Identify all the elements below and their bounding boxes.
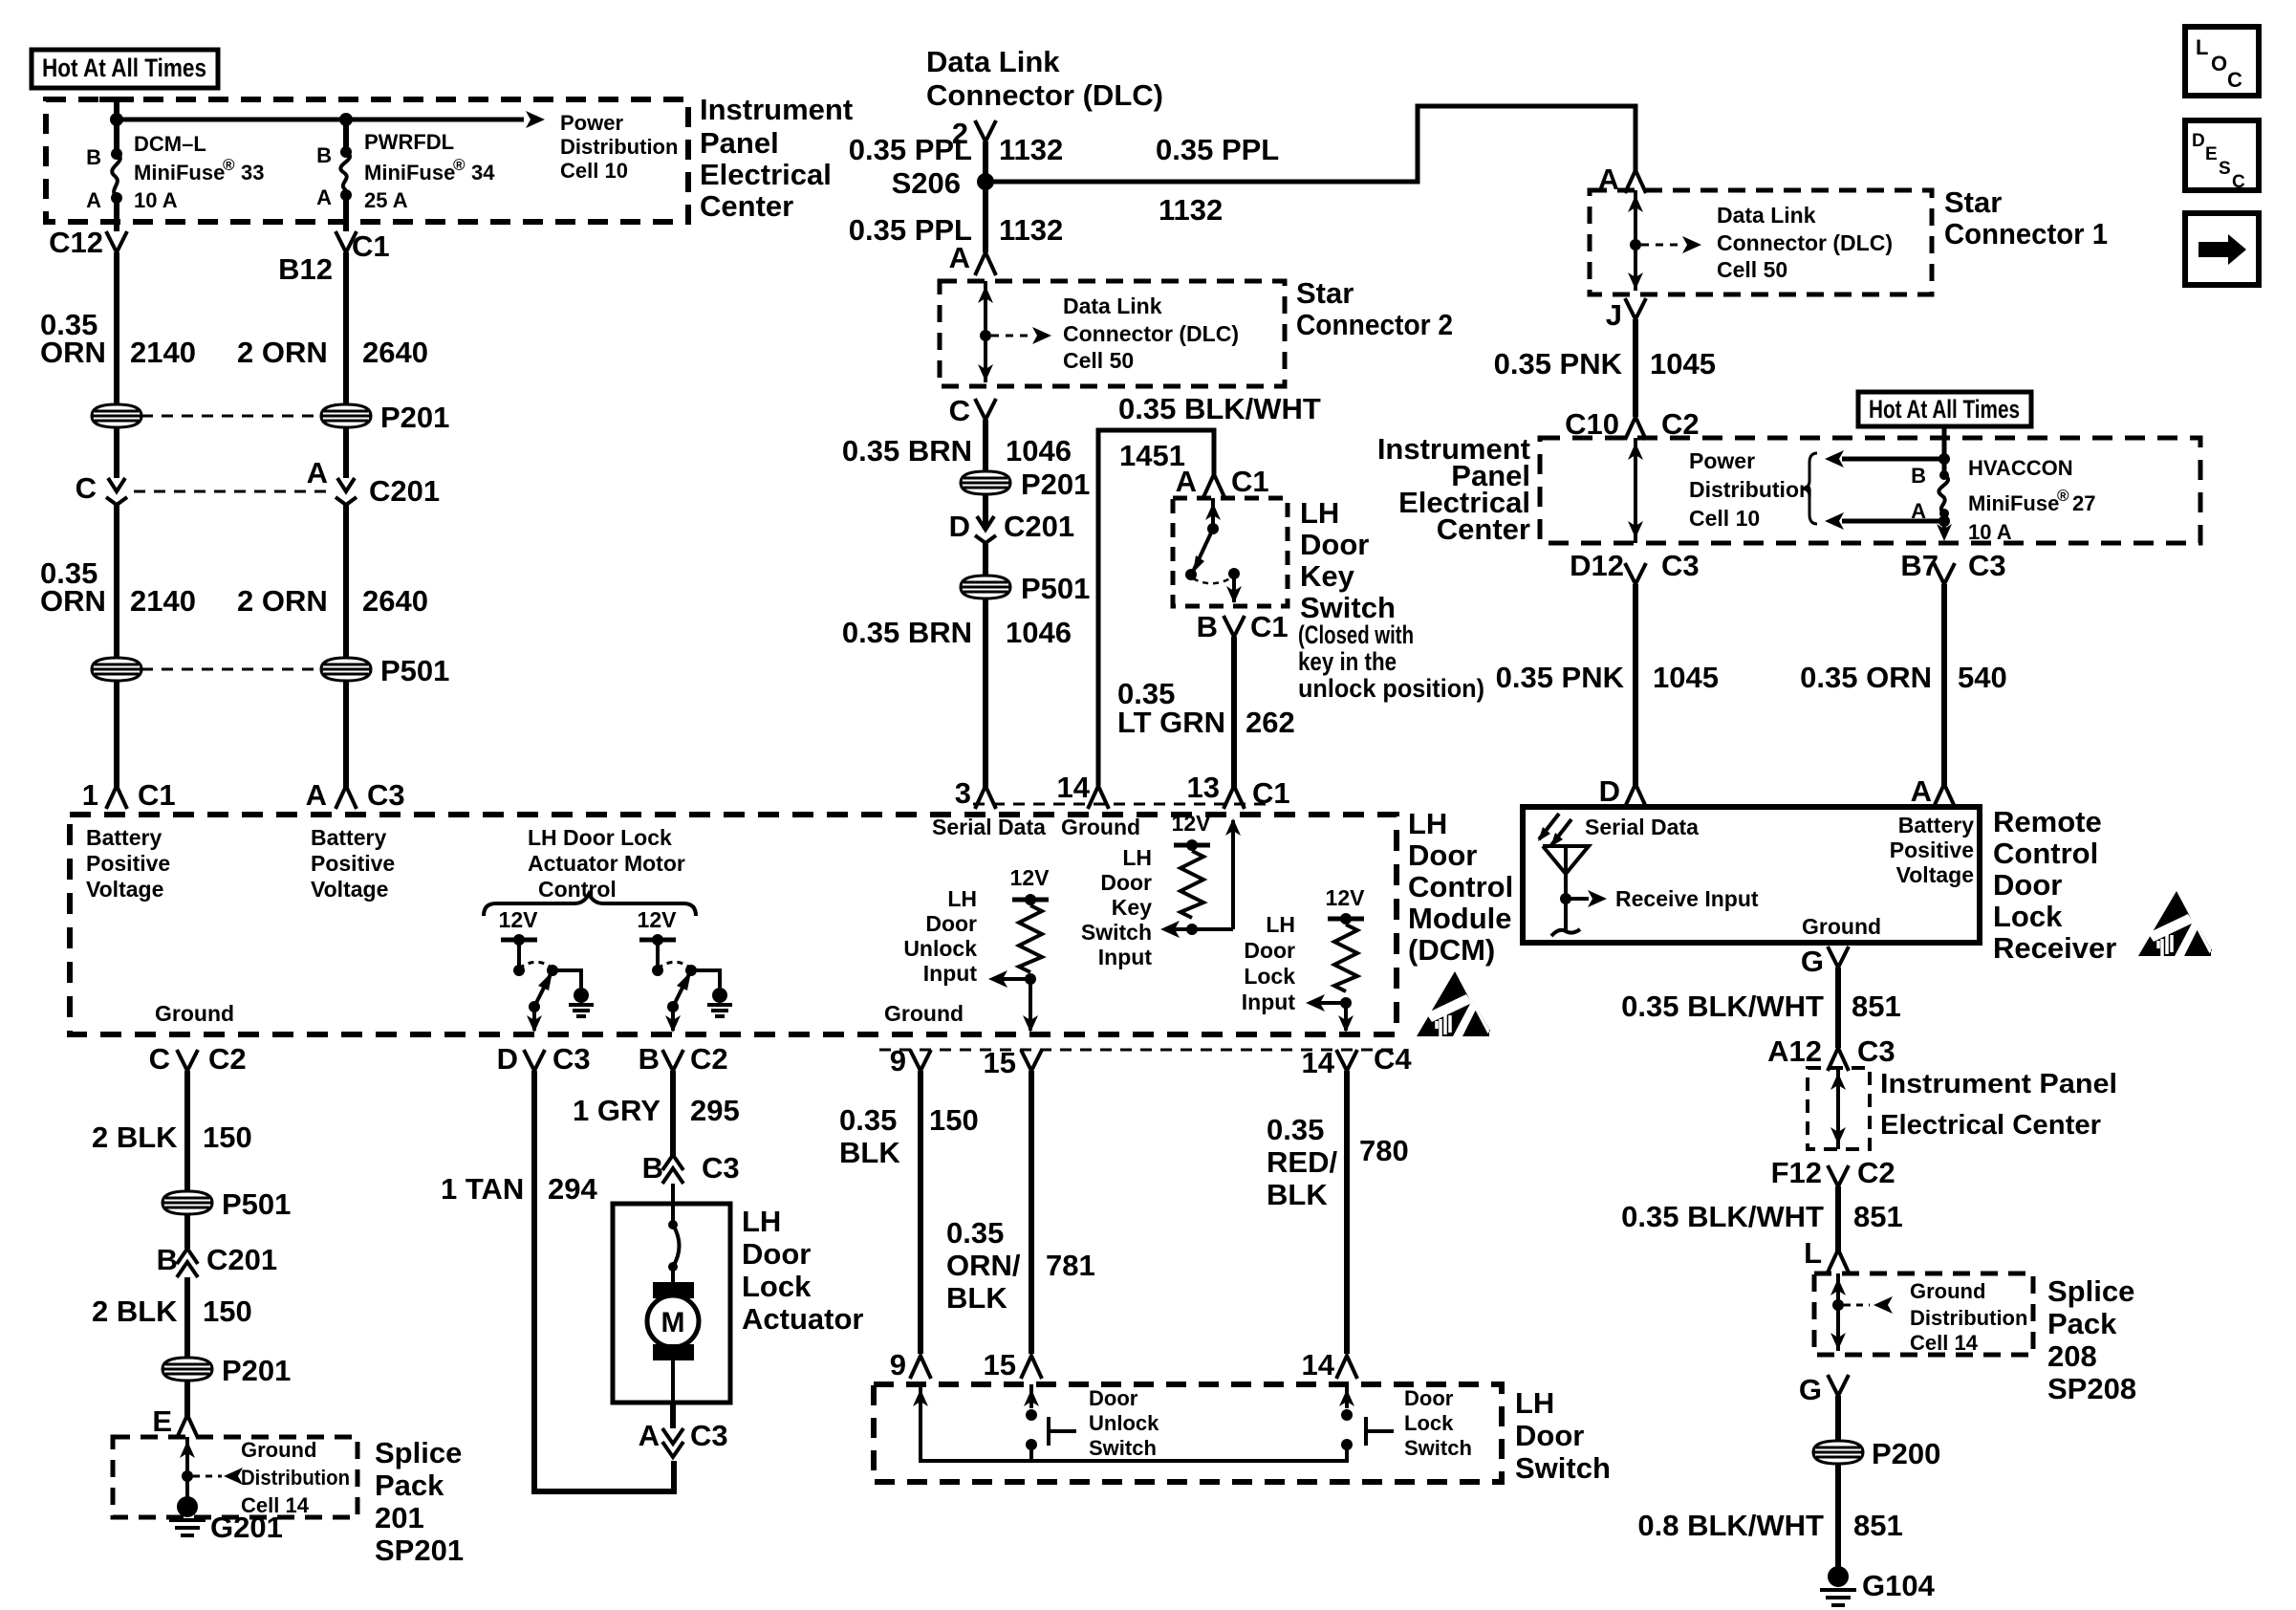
svg-text:Instrument Panel: Instrument Panel [1880, 1069, 2117, 1099]
svg-text:294: 294 [548, 1172, 597, 1206]
label: 1 TAN 294 [441, 1172, 597, 1206]
wire: into splice pack [180, 1437, 195, 1497]
svg-text:Serial Data: Serial Data [932, 815, 1046, 839]
svg-text:G104: G104 [1862, 1569, 1936, 1602]
svg-text:0.35 PPL: 0.35 PPL [849, 133, 972, 166]
label: 0.35 ORN/BLK 781 [946, 1216, 1095, 1315]
svg-text:Door: Door [1244, 938, 1295, 963]
ESD symbol at DCM [1417, 971, 1490, 1036]
connector D / C201 inline [949, 494, 1075, 543]
svg-text:Ground: Ground [241, 1438, 316, 1462]
svg-text:Electrical Center: Electrical Center [1880, 1110, 2101, 1141]
switch: key switch contacts [1185, 498, 1242, 603]
svg-text:E: E [152, 1404, 172, 1438]
connector pin 3 at module [955, 776, 996, 810]
svg-text:C2: C2 [1857, 1156, 1895, 1189]
svg-text:C201: C201 [1004, 510, 1074, 543]
svg-text:2640: 2640 [362, 336, 428, 369]
wire: C12 down to P201 [114, 252, 119, 405]
label box "Hot At All Times" [32, 50, 218, 88]
svg-text:9: 9 [890, 1044, 906, 1077]
svg-text:Lock: Lock [1993, 900, 2063, 933]
switch: Door Unlock Switch [1024, 1384, 1076, 1461]
wire: C down to P201 [983, 420, 988, 472]
ground G104 [1820, 1566, 1936, 1605]
svg-text:HVACCON: HVACCON [1968, 456, 2073, 480]
svg-text:Splice: Splice [2047, 1274, 2134, 1308]
svg-text:780: 780 [1359, 1134, 1409, 1167]
label: 0.35 PNK 1045 (upper) [1494, 347, 1716, 381]
svg-text:2140: 2140 [130, 584, 196, 618]
svg-text:Door: Door [1089, 1386, 1138, 1410]
svg-text:C4: C4 [1374, 1042, 1412, 1076]
svg-text:Lock: Lock [1244, 964, 1295, 989]
svg-text:Control: Control [538, 877, 617, 902]
svg-text:BLK: BLK [1267, 1178, 1328, 1211]
label: 0.35 PPL 1132 (above S206) [849, 133, 1064, 166]
svg-text:C1: C1 [1231, 465, 1269, 498]
svg-text:2 BLK: 2 BLK [92, 1120, 178, 1154]
svg-text:D: D [2192, 131, 2205, 151]
svg-text:Input: Input [1098, 945, 1153, 969]
LH Door Lock Actuator box [613, 1204, 730, 1403]
svg-text:G201: G201 [210, 1511, 283, 1544]
node: junction at fuse 34 top [339, 113, 353, 126]
wire: G down to A12 [1835, 968, 1841, 1048]
svg-text:A12: A12 [1767, 1034, 1822, 1068]
svg-text:C3: C3 [552, 1042, 591, 1076]
svg-text:0.35 BRN: 0.35 BRN [842, 616, 972, 649]
svg-text:Door: Door [1993, 868, 2062, 902]
LOC box [2185, 27, 2259, 96]
Splice Pack 208 dashed box [1814, 1273, 2033, 1355]
component label: Star Connector 2 [1296, 276, 1453, 341]
svg-text:C1: C1 [352, 229, 390, 263]
label: 0.35 RED/BLK 780 [1267, 1113, 1409, 1211]
wire: into actuator box [671, 1184, 675, 1223]
svg-text:B: B [639, 1042, 660, 1076]
svg-text:12V: 12V [1010, 865, 1051, 890]
arrow: feed B to power distribution [1825, 450, 1944, 468]
svg-text:0.35 BLK/WHT: 0.35 BLK/WHT [1621, 990, 1824, 1023]
ground: driver 2 internal ground [707, 988, 732, 1016]
svg-text:Positive: Positive [1890, 838, 1974, 862]
switch: Door Lock Switch [1339, 1384, 1394, 1461]
connector B / C3 [642, 1151, 740, 1185]
svg-text:BLK: BLK [839, 1136, 900, 1169]
svg-text:®: ® [453, 156, 466, 174]
label: 0.35 ORN 2140 (lower) [40, 556, 196, 618]
connector pin L [1804, 1236, 1849, 1273]
LH Door Switch dashed box [874, 1384, 1502, 1482]
svg-text:Distribution: Distribution [1910, 1306, 2027, 1330]
svg-text:Receiver: Receiver [1993, 931, 2116, 965]
svg-text:13: 13 [1187, 771, 1220, 804]
svg-text:150: 150 [203, 1295, 252, 1328]
label: (Closed with key in the unlock position) [1298, 620, 1484, 703]
connector pin 9 top [890, 1044, 931, 1077]
resistor: LH Door Lock Input pull-up [1306, 885, 1365, 1033]
svg-text:851: 851 [1853, 1200, 1903, 1233]
label: 2 BLK 150 (upper) [92, 1120, 252, 1154]
svg-text:1046: 1046 [1006, 616, 1072, 649]
svg-text:G: G [1801, 945, 1824, 978]
svg-text:12V: 12V [638, 907, 678, 932]
svg-text:0.35 PNK: 0.35 PNK [1496, 661, 1625, 694]
svg-text:Center: Center [1437, 512, 1530, 546]
svg-text:Pack: Pack [375, 1469, 444, 1502]
component label: Splice Pack 201 SP201 [375, 1436, 464, 1567]
connector pin 14 bottom [1302, 1348, 1357, 1382]
svg-text:S: S [2219, 159, 2231, 179]
svg-text:S206: S206 [892, 166, 961, 200]
svg-text:1132: 1132 [1159, 193, 1223, 227]
svg-text:C3: C3 [702, 1151, 740, 1185]
svg-text:Ground: Ground [1061, 815, 1140, 839]
svg-text:Positive: Positive [86, 851, 170, 876]
component label: LH Door Key Switch [1300, 496, 1396, 624]
svg-text:Data Link: Data Link [1717, 203, 1816, 228]
svg-text:15: 15 [984, 1046, 1016, 1079]
connector pin G below SP208 [1799, 1373, 1849, 1406]
wire: P201 to C201 (both columns) [117, 427, 346, 478]
LH Door Key Switch dashed box [1173, 498, 1288, 606]
wire: fuse 34 to C1 [343, 195, 349, 231]
svg-text:B: B [316, 143, 332, 167]
svg-text:B: B [86, 145, 101, 169]
svg-text:G: G [1799, 1373, 1822, 1406]
label: LH Door Lock Actuator Motor Control [528, 825, 685, 902]
node: splice dot SP208 [1832, 1299, 1844, 1311]
wire: 1451 loop (pin 14 ground to key switch) [1098, 430, 1214, 786]
svg-text:Door: Door [1404, 1386, 1454, 1410]
svg-text:Door: Door [742, 1237, 811, 1271]
label box "Hot At All Times" (right) [1858, 392, 2031, 426]
svg-text:C: C [949, 394, 970, 427]
svg-text:Unlock: Unlock [903, 936, 977, 961]
svg-text:201: 201 [375, 1501, 424, 1534]
wire: C201 to P501 [117, 505, 346, 659]
wire: P501 to C201 [184, 1214, 190, 1249]
svg-text:P201: P201 [380, 401, 449, 434]
svg-text:15: 15 [984, 1348, 1016, 1382]
label: Door Unlock Switch [1089, 1386, 1159, 1460]
svg-text:key in the: key in the [1298, 647, 1397, 676]
Instrument Panel Electrical Center dashed box (right) [1540, 438, 2200, 543]
label: 1 GRY 295 [573, 1094, 740, 1127]
svg-text:Battery: Battery [311, 825, 386, 850]
svg-text:DCM–L: DCM–L [134, 132, 206, 156]
svg-text:C12: C12 [49, 226, 103, 259]
svg-text:L: L [1804, 1236, 1822, 1270]
svg-text:(DCM): (DCM) [1408, 933, 1495, 967]
label: Ground Distribution Cell 14 (SP208) [1910, 1279, 2027, 1355]
connector pin A at receiver [1911, 774, 1955, 808]
svg-text:1046: 1046 [1006, 434, 1072, 468]
component label: Instrument Panel Electrical Center (right) [1377, 432, 1530, 546]
fuse F33 DCM-L MiniFuse 33 10A [86, 132, 264, 212]
label: LH Door Unlock Input [903, 886, 977, 986]
component label: Splice Pack 208 SP208 [2047, 1274, 2136, 1405]
splice pack 201 dashed box [113, 1437, 357, 1517]
resistor: LH Door Key Switch Input pull-up [1160, 811, 1241, 938]
svg-text:9: 9 [890, 1348, 906, 1382]
Star Connector 2 dashed box [940, 281, 1285, 386]
Instrument Panel Electrical Center dashed box [46, 99, 688, 222]
connector B / C201 [157, 1243, 278, 1277]
svg-text:0.35: 0.35 [839, 1103, 897, 1137]
connector pin B / C2 [639, 1042, 728, 1076]
arrow: feed A to power distribution [1825, 512, 1944, 530]
svg-text:C2: C2 [690, 1042, 728, 1076]
node: junction at fuse 33 top [110, 113, 123, 126]
svg-text:unlock position): unlock position) [1298, 674, 1484, 703]
svg-text:14: 14 [1302, 1348, 1335, 1382]
wire: F12 to L [1835, 1186, 1841, 1251]
label: 0.35 BRN 1046 (upper) [842, 434, 1072, 468]
svg-text:LH: LH [1122, 845, 1152, 870]
svg-text:ORN: ORN [40, 584, 106, 618]
svg-text:P501: P501 [222, 1187, 291, 1221]
svg-text:BLK: BLK [946, 1281, 1007, 1315]
svg-text:33: 33 [241, 161, 264, 185]
svg-text:C1: C1 [1252, 776, 1290, 810]
svg-text:C3: C3 [690, 1419, 728, 1452]
component label: Data Link Connector (DLC) [926, 45, 1163, 112]
svg-text:Actuator: Actuator [742, 1302, 863, 1336]
label: Power Distribution Cell 10 [560, 111, 678, 183]
svg-text:LH: LH [1408, 807, 1447, 840]
connector pin C12 [49, 226, 127, 259]
label: Battery Positive Voltage (pin 1) [86, 825, 170, 902]
svg-text:1: 1 [82, 778, 98, 812]
svg-text:Remote: Remote [1993, 805, 2102, 838]
svg-text:SP208: SP208 [2047, 1372, 2136, 1405]
svg-text:12V: 12V [1172, 811, 1212, 836]
label: 0.35 ORN 540 [1800, 661, 2007, 694]
fuse F27 HVACCON MiniFuse 27 10A [1911, 426, 2095, 544]
svg-text:27: 27 [2072, 491, 2095, 515]
svg-text:LH: LH [1515, 1386, 1554, 1420]
svg-text:0.35: 0.35 [1267, 1113, 1324, 1146]
connector line C1 (thin dashed, module top) [973, 803, 1271, 806]
svg-text:Switch: Switch [1404, 1436, 1472, 1460]
svg-text:ORN/: ORN/ [946, 1249, 1021, 1282]
label: 0.8 BLK/WHT 851 [1637, 1509, 1902, 1542]
label: LH Door Key Switch Input [1081, 845, 1152, 969]
label: 0.35 BRN 1046 (lower) [842, 616, 1072, 649]
connector pin 15 bottom [984, 1348, 1042, 1382]
wire: G to P200 [1835, 1396, 1841, 1442]
ground: driver 1 internal ground [569, 988, 594, 1016]
svg-text:1132: 1132 [999, 133, 1063, 166]
svg-text:0.35: 0.35 [946, 1216, 1004, 1250]
pointer to DLC Cell 50 (star 1) [1641, 236, 1701, 253]
wire: P501 down to module pins [117, 681, 346, 788]
svg-text:Door: Door [1515, 1419, 1584, 1452]
svg-text:Connector (DLC): Connector (DLC) [926, 78, 1163, 112]
svg-text:D: D [497, 1042, 518, 1076]
label: Battery Positive Voltage (receiver) [1890, 813, 1974, 887]
svg-text:14: 14 [1057, 771, 1091, 804]
svg-text:781: 781 [1046, 1249, 1095, 1282]
pointer to DLC Cell 50 (star 2) [991, 327, 1051, 344]
svg-text:C3: C3 [1857, 1034, 1895, 1068]
wire: through star connector 1 [1628, 190, 1643, 291]
svg-text:C2: C2 [208, 1042, 247, 1076]
svg-text:A: A [86, 188, 101, 212]
svg-text:Connector 2: Connector 2 [1296, 308, 1453, 341]
svg-text:25 A: 25 A [364, 188, 408, 212]
antenna symbol [1543, 846, 1589, 936]
svg-text:1045: 1045 [1653, 661, 1719, 694]
label: LH Door Lock Input [1242, 912, 1296, 1014]
svg-text:MiniFuse: MiniFuse [134, 161, 225, 185]
svg-text:Key: Key [1112, 895, 1152, 920]
svg-text:Cell 50: Cell 50 [1717, 257, 1787, 282]
svg-text:O: O [2211, 52, 2227, 76]
svg-text:MiniFuse: MiniFuse [364, 161, 455, 185]
svg-text:M: M [661, 1307, 685, 1338]
component label: LH Door Lock Actuator [742, 1205, 863, 1336]
connector pin C / C2 [149, 1042, 247, 1076]
svg-text:Electrical: Electrical [700, 158, 832, 191]
svg-text:C3: C3 [1968, 549, 2006, 582]
svg-text:Key: Key [1300, 559, 1355, 593]
svg-text:0.35 BLK/WHT: 0.35 BLK/WHT [1118, 392, 1321, 425]
svg-text:Switch: Switch [1515, 1451, 1611, 1485]
connector pin A / C3 at module [306, 778, 405, 812]
svg-text:0.8 BLK/WHT: 0.8 BLK/WHT [1637, 1509, 1824, 1542]
wire: key switch B to module pin 13 [1231, 637, 1237, 788]
svg-text:150: 150 [203, 1120, 252, 1154]
svg-text:Input: Input [923, 961, 978, 986]
svg-text:Cell 14: Cell 14 [1910, 1331, 1979, 1355]
svg-text:2 ORN: 2 ORN [237, 584, 328, 618]
wire: C1 down to P201 [343, 252, 349, 405]
svg-text:Door: Door [925, 911, 977, 936]
wire: through star connector 2 [978, 281, 993, 382]
svg-text:Cell 10: Cell 10 [1689, 506, 1760, 531]
svg-text:Panel: Panel [700, 126, 779, 160]
svg-text:Lock: Lock [1404, 1411, 1454, 1435]
svg-text:Battery: Battery [1898, 813, 1974, 838]
svg-text:Star: Star [1296, 276, 1354, 310]
wire: DLC pin 2 to S206 [983, 141, 988, 252]
connector pin D at receiver [1599, 774, 1646, 808]
svg-text:Distribution: Distribution [241, 1466, 350, 1490]
grommet P501 (serial data) [961, 572, 1090, 605]
wire: through splice pack 208 [1830, 1273, 1846, 1351]
svg-text:LH Door Lock: LH Door Lock [528, 825, 672, 850]
wire: S206 branch to Star Connector 1 [986, 106, 1635, 182]
svg-text:®: ® [223, 156, 235, 174]
component label: Instrument Panel Electrical Center [700, 93, 853, 223]
svg-text:0.35 BRN: 0.35 BRN [842, 434, 972, 468]
svg-text:Hot At All Times: Hot At All Times [1869, 395, 2020, 424]
svg-text:Connector (DLC): Connector (DLC) [1063, 321, 1239, 346]
svg-text:A: A [1911, 499, 1926, 523]
label: 0.35 BLK 150 [839, 1103, 979, 1169]
svg-text:Switch: Switch [1300, 591, 1396, 624]
svg-text:C: C [2227, 68, 2242, 92]
svg-text:C: C [2232, 172, 2245, 192]
svg-text:Splice: Splice [375, 1436, 462, 1469]
svg-text:A: A [1176, 465, 1197, 498]
wire: C201 to P501 [983, 543, 988, 577]
connector pin 1 / C1 at module [82, 778, 176, 812]
connector line C4 (thin dashed, module bottom) [879, 1049, 1397, 1052]
svg-text:Module: Module [1408, 902, 1512, 935]
svg-text:Lock: Lock [742, 1270, 812, 1303]
svg-text:Ground: Ground [884, 1001, 964, 1026]
svg-text:C3: C3 [1661, 549, 1700, 582]
svg-text:SP201: SP201 [375, 1534, 464, 1567]
Star Connector 1 dashed box [1590, 190, 1932, 294]
svg-text:1132: 1132 [999, 213, 1063, 247]
wire: pin 15 down [1029, 1071, 1034, 1354]
svg-text:LH: LH [1300, 496, 1339, 530]
svg-text:2 BLK: 2 BLK [92, 1295, 178, 1328]
svg-text:LH: LH [742, 1205, 781, 1238]
svg-text:Unlock: Unlock [1089, 1411, 1159, 1435]
svg-text:Voltage: Voltage [311, 877, 388, 902]
svg-text:Door: Door [1100, 870, 1152, 895]
grommet P501 pair [92, 654, 449, 687]
wire: B7 to receiver A [1941, 584, 1947, 786]
svg-text:B: B [1197, 610, 1218, 643]
wire: D/C3 down and across to motor return [534, 1071, 674, 1491]
svg-text:Pack: Pack [2047, 1307, 2117, 1340]
svg-text:Power: Power [1689, 448, 1755, 473]
component label: Star Connector 1 [1944, 185, 2108, 250]
svg-text:C: C [76, 471, 97, 505]
svg-text:Voltage: Voltage [86, 877, 163, 902]
DESC box [2185, 120, 2259, 192]
svg-text:1045: 1045 [1650, 347, 1716, 381]
svg-text:D12: D12 [1570, 549, 1624, 582]
grommet P200 [1813, 1437, 1940, 1470]
label: Battery Positive Voltage (pin A) [311, 825, 395, 902]
svg-text:J: J [1606, 298, 1622, 332]
connector pin F12 / C2 [1771, 1156, 1895, 1189]
brace under motor control label [484, 894, 696, 916]
arrow: Receive Input [1560, 886, 1759, 911]
svg-text:0.35 ORN: 0.35 ORN [1800, 661, 1932, 694]
svg-text:LH: LH [1266, 912, 1295, 937]
wire: pass-through C10 to D12 [1628, 438, 1643, 543]
svg-text:Door: Door [1408, 838, 1477, 872]
connector pin B12 / C1 [278, 229, 390, 286]
svg-text:LH: LH [947, 886, 977, 911]
svg-text:C3: C3 [367, 778, 405, 812]
pointer to Ground Distribution Cell 14 [193, 1468, 243, 1485]
connector pin D12 / C3 [1570, 549, 1700, 584]
svg-text:Control: Control [1408, 870, 1513, 903]
wire: feed into fuse 33 from top edge [99, 99, 134, 154]
connector pin J below star 1 [1606, 298, 1646, 332]
svg-text:Hot At All Times: Hot At All Times [42, 54, 206, 82]
svg-text:Voltage: Voltage [1896, 862, 1974, 887]
svg-text:10 A: 10 A [1968, 520, 2012, 544]
svg-text:Input: Input [1242, 990, 1296, 1014]
motor M1 LH door lock motor [647, 1267, 699, 1403]
svg-text:C1: C1 [138, 778, 176, 812]
wire: B/C2 down to B/C3 [670, 1071, 676, 1157]
svg-text:L: L [2196, 35, 2208, 59]
switch: lock actuator driver 2 (12V) [638, 907, 720, 1033]
wire: D12 to receiver D [1633, 584, 1638, 786]
